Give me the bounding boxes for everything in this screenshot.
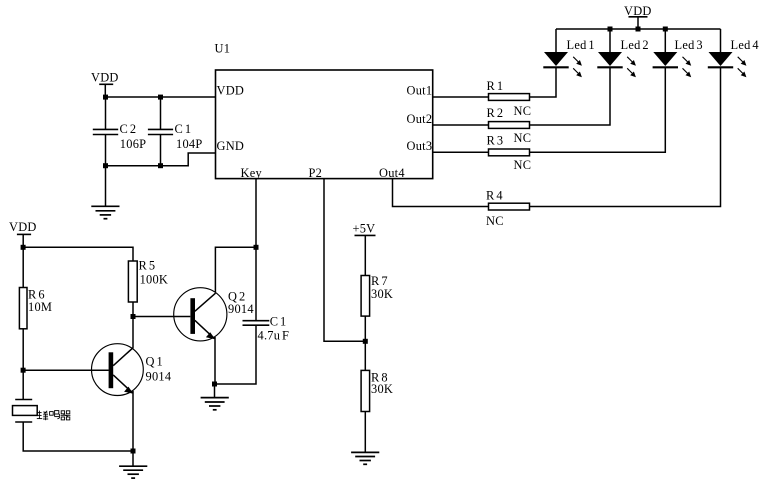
svg-text:104P: 104P (176, 137, 202, 151)
node junction R6/buzzer/Q1 base (21, 368, 26, 373)
wire: C1 bottom to Q2 emitter ground bus (215, 325, 257, 384)
svg-text:106P: 106P (120, 137, 146, 151)
node junction rail/Led3 (663, 27, 668, 32)
wire: Q2 emitter down (214, 337, 216, 384)
svg-text:30K: 30K (371, 287, 393, 301)
resistor R4 (486, 189, 530, 210)
wire: Q1 emitter down to ground bus (132, 391, 134, 451)
label 蜂鸣器 (buzzer) (37, 411, 71, 421)
wire: R8 bottom to ground (364, 412, 366, 453)
svg-text:R 5: R 5 (139, 259, 156, 273)
resistor R2 (487, 106, 530, 128)
svg-text:C 1: C 1 (270, 314, 287, 328)
wire: R2 to Led2 cathode (530, 68, 611, 126)
LED Led3 (653, 29, 703, 77)
node junction at C1 bottom (158, 163, 163, 168)
svg-text:30K: 30K (371, 382, 393, 396)
node junction R5/Q1 collector/Q2 base (131, 314, 136, 319)
resistor R1 (487, 79, 530, 101)
svg-text:9014: 9014 (228, 302, 254, 316)
svg-text:NC: NC (486, 214, 504, 228)
svg-text:GND: GND (217, 139, 245, 153)
wire: VDD junction down to R6 (22, 247, 24, 287)
resistor R5 100K (128, 259, 168, 302)
svg-text:R 1: R 1 (487, 79, 504, 93)
wire: U1 Out1 to R1 (433, 96, 489, 98)
LED Led1 (543, 29, 595, 77)
wire: Key junction to Q2 collector (215, 247, 256, 292)
node junction Q1 emitter/ground (131, 449, 136, 454)
resistor R3 (487, 134, 530, 156)
svg-text:Key: Key (241, 166, 263, 180)
svg-text:VDD: VDD (217, 84, 245, 98)
wire: capacitor bottom bus to U1 GND pin (106, 153, 217, 166)
capacitor C1 4.7uF (243, 314, 290, 342)
LED Led2 (597, 29, 649, 77)
svg-text:10M: 10M (28, 300, 52, 314)
wire: Q1 collector up to node (132, 317, 134, 348)
svg-text:Led 4: Led 4 (731, 38, 759, 52)
svg-text:C 2: C 2 (120, 122, 137, 136)
node junction at C2 top (103, 95, 108, 100)
svg-text:R 2: R 2 (487, 106, 504, 120)
svg-text:Q 1: Q 1 (146, 355, 164, 369)
wire: R4 to Led4 cathode (530, 68, 721, 207)
node junction rail/Led2 (608, 27, 613, 32)
node junction rail/VDD stem (636, 27, 641, 32)
buzzer (piezo) (13, 400, 38, 423)
ground (Q1 emitter) (119, 466, 147, 478)
svg-text:4.7u F: 4.7u F (258, 329, 290, 343)
wire: R7 bottom to R8 top (364, 316, 366, 370)
svg-text:R 7: R 7 (371, 274, 388, 288)
wire: buzzer bottom to ground bus (23, 422, 133, 451)
wire: ground stem (Q1) (132, 451, 134, 466)
wire: U1 Out3 to R3 (433, 151, 489, 153)
node junction R7/R8/P2 (363, 339, 368, 344)
wire: R5 bottom to base node (132, 302, 134, 317)
svg-text:9014: 9014 (146, 369, 172, 383)
svg-text:Out2: Out2 (407, 112, 433, 126)
wire: VDD rail over LEDs (556, 28, 721, 30)
wire: VDD rail to U1 VDD pin (105, 96, 216, 98)
wire: R1 to Led1 cathode (530, 68, 557, 98)
wire: C2 bottom to ground (105, 166, 107, 207)
svg-text:Led 1: Led 1 (567, 38, 595, 52)
svg-text:R 3: R 3 (487, 134, 504, 148)
node junction at C1 top (158, 95, 163, 100)
wire: node to Q2 base (133, 316, 190, 318)
svg-text:Out3: Out3 (407, 139, 433, 153)
transistor Q2 9014 (174, 288, 254, 341)
svg-text:VDD: VDD (624, 4, 652, 18)
transistor Q1 9014 (92, 344, 172, 396)
svg-text:VDD: VDD (9, 220, 37, 234)
power symbol VDD (top-left, above C2) (91, 71, 119, 98)
svg-text:C 1: C 1 (175, 122, 192, 136)
svg-text:+5V: +5V (353, 221, 376, 235)
svg-text:NC: NC (514, 131, 532, 145)
svg-text:P2: P2 (309, 166, 323, 180)
wire: U1 Out4 down and right to R4 (393, 179, 489, 207)
node junction VDD/R5/R6 (21, 245, 26, 250)
node junction at C2 bottom (103, 163, 108, 168)
capacitor C2 106P (93, 97, 146, 166)
wire: node down to buzzer (22, 370, 24, 399)
wire: node to Q1 base (23, 369, 109, 371)
LED Led4 (708, 29, 759, 77)
svg-text:VDD: VDD (91, 71, 119, 85)
ground (below R8) (351, 452, 379, 464)
node junction Key/Q2 collector branch (254, 245, 259, 250)
svg-text:Out1: Out1 (407, 84, 433, 98)
svg-text:NC: NC (514, 158, 532, 172)
wire: ground stem (Q2) (214, 384, 216, 397)
ground (below C2/C1) (91, 206, 119, 218)
svg-text:U1: U1 (215, 42, 231, 56)
resistor R6 10M (19, 288, 52, 329)
svg-text:Out4: Out4 (379, 166, 405, 180)
wire: R6 bottom to Q1 base node (22, 329, 24, 370)
resistor R7 30K (361, 274, 393, 316)
svg-text:Led 3: Led 3 (675, 38, 703, 52)
power symbol VDD (left, above R6) (9, 220, 37, 247)
wire: R3 to Led3 cathode (530, 68, 666, 153)
wire: U1 Key pin down to C1 (255, 179, 257, 321)
node junction Q2 emitter/ground (212, 382, 217, 387)
wire: U1 Out2 to R2 (433, 124, 489, 126)
svg-text:NC: NC (514, 104, 532, 118)
wire: U1 P2 pin down to divider (324, 179, 365, 342)
capacitor C1 104P (148, 97, 203, 166)
svg-text:R 4: R 4 (486, 189, 503, 203)
ground (Q2 emitter) (201, 398, 229, 410)
wire: VDD junction to R5 top (23, 247, 133, 261)
svg-text:100K: 100K (140, 273, 169, 287)
IC U1 body (216, 70, 433, 179)
svg-text:Led 2: Led 2 (621, 38, 649, 52)
power symbol +5V (353, 221, 376, 275)
power symbol VDD (LED rail) (624, 4, 652, 29)
resistor R8 30K (361, 370, 393, 411)
